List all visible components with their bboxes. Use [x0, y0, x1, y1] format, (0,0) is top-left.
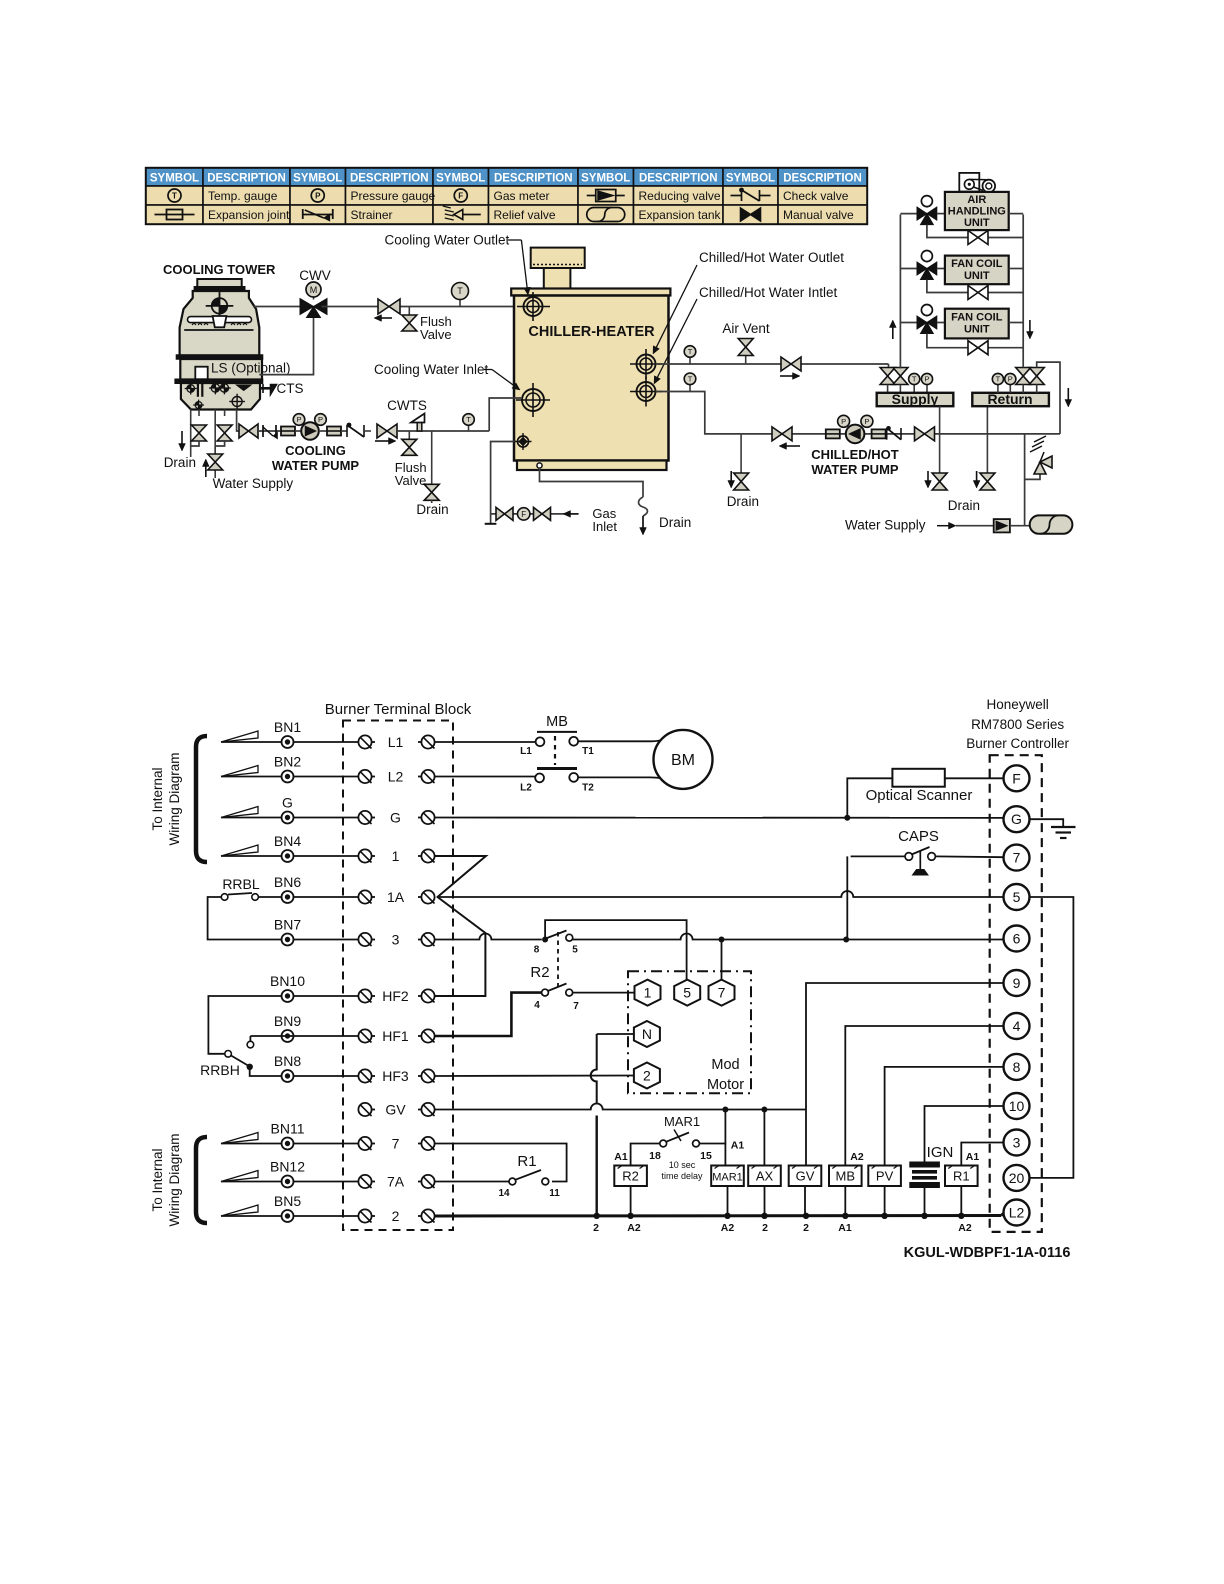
tower drain valve — [192, 425, 207, 433]
svg-text:To Internal: To Internal — [150, 767, 165, 830]
chiller drain vent — [537, 463, 542, 468]
manual valve chw pump suction — [772, 427, 782, 441]
svg-text:GV: GV — [385, 1102, 406, 1118]
svg-text:DESCRIPTION: DESCRIPTION — [350, 173, 429, 185]
svg-text:CWV: CWV — [299, 268, 331, 283]
svg-text:WATER PUMP: WATER PUMP — [811, 462, 898, 477]
svg-text:T: T — [466, 415, 471, 424]
temp gauge chilled outlet — [689, 357, 691, 364]
svg-text:P: P — [841, 417, 846, 426]
expansion joint pump right — [327, 427, 341, 436]
svg-text:SYMBOL: SYMBOL — [436, 173, 485, 185]
svg-text:9: 9 — [1013, 975, 1021, 991]
wire R2 contact to controller 6 — [573, 934, 1004, 940]
svg-text:BN9: BN9 — [274, 1013, 301, 1029]
svg-text:UNIT: UNIT — [964, 324, 990, 336]
cooling tower spray header — [188, 317, 252, 323]
svg-text:BN1: BN1 — [274, 719, 301, 735]
pipe supply riser to FCU2 valve — [900, 322, 917, 324]
pipe FCU2 to return riser — [1009, 322, 1024, 324]
flow arrow chilled outlet — [780, 375, 793, 377]
svg-text:P: P — [924, 375, 929, 384]
return isolation valve 2 — [1029, 368, 1044, 377]
terminal row GV (no BN) — [358, 1103, 371, 1116]
svg-text:Air Vent: Air Vent — [722, 321, 770, 336]
terminal row 7 (BN11) — [221, 1143, 259, 1145]
svg-text:A2: A2 — [958, 1222, 972, 1234]
manual valve on tower outlet line — [378, 299, 389, 314]
pipe tank riser — [1024, 434, 1026, 526]
svg-text:7: 7 — [718, 985, 726, 1001]
svg-text:T: T — [172, 192, 177, 201]
svg-text:L2: L2 — [388, 769, 404, 785]
svg-text:SYMBOL: SYMBOL — [726, 173, 775, 185]
burner terminal block dashed box — [343, 721, 453, 1231]
svg-text:F: F — [458, 192, 463, 201]
CWV motor actuator — [313, 297, 315, 300]
controller terminal L2 — [1004, 1200, 1030, 1226]
terminal row L2 (BN2) — [221, 776, 259, 778]
svg-text:MAR1: MAR1 — [664, 1114, 700, 1129]
legend check valve symbol — [731, 195, 742, 197]
gas pipe from port — [491, 442, 515, 524]
relief valve — [1034, 462, 1046, 474]
FCU1 bypass valve — [968, 286, 978, 300]
svg-text:4: 4 — [534, 1000, 540, 1011]
svg-text:Expansion tank: Expansion tank — [639, 208, 722, 222]
svg-text:10 sec: 10 sec — [669, 1160, 696, 1170]
wire controller 20 to 5 jumper — [1030, 897, 1074, 1178]
svg-text:Expansion joint: Expansion joint — [208, 208, 290, 222]
svg-text:AIR: AIR — [967, 194, 986, 206]
svg-text:10: 10 — [1009, 1098, 1025, 1114]
controller terminal G — [1004, 806, 1030, 832]
supply drain — [939, 406, 941, 473]
svg-text:Burner Controller: Burner Controller — [966, 736, 1069, 751]
controller terminal 3 — [1004, 1130, 1030, 1156]
AHU bypass valve — [968, 231, 978, 245]
FCU1 bypass pipe — [927, 280, 968, 293]
svg-text:7: 7 — [392, 1136, 400, 1152]
svg-text:LS (Optional): LS (Optional) — [211, 361, 291, 376]
terminal row 1 (BN4) — [221, 855, 259, 857]
brace (bottom group) — [196, 1137, 207, 1223]
return gauges — [997, 385, 999, 393]
cooling tower LS box — [195, 367, 207, 380]
svg-text:F: F — [1012, 770, 1021, 786]
svg-text:Drain: Drain — [416, 502, 448, 517]
chiller body — [514, 296, 669, 461]
pipe AHU valve to unit — [937, 213, 945, 215]
svg-text:Manual valve: Manual valve — [783, 208, 854, 222]
svg-text:Water Supply: Water Supply — [845, 518, 926, 533]
svg-text:RRBL: RRBL — [222, 876, 260, 892]
svg-text:COOLING: COOLING — [285, 443, 346, 458]
controller terminal 7 — [1004, 845, 1030, 871]
svg-text:A1: A1 — [966, 1151, 980, 1163]
chilled water outlet pipe — [656, 363, 889, 365]
wire 7A to R1 contact 14 — [435, 1181, 509, 1183]
svg-text:UNIT: UNIT — [964, 217, 990, 229]
chiller gas port — [518, 436, 529, 447]
svg-text:L1: L1 — [388, 734, 404, 750]
svg-text:WATER PUMP: WATER PUMP — [272, 458, 359, 473]
svg-text:GV: GV — [796, 1169, 815, 1184]
wire T1 to BM — [578, 737, 668, 741]
relay coil R1 — [945, 1166, 978, 1187]
flow arrow left on outlet line — [382, 317, 393, 319]
RRBH switch — [225, 1051, 232, 1058]
svg-text:SYMBOL: SYMBOL — [150, 173, 199, 185]
svg-text:7: 7 — [573, 1001, 579, 1012]
FCU2 three-way valve — [926, 307, 928, 317]
optical scanner box — [892, 769, 944, 787]
RRBL wire to BN7 — [208, 897, 282, 940]
strainer (pump suction) — [262, 425, 264, 437]
svg-text:5: 5 — [683, 985, 691, 1001]
svg-text:Inlet: Inlet — [592, 519, 617, 534]
controller terminal 9 — [1004, 970, 1030, 996]
fan coil unit 2 box — [945, 309, 1009, 339]
manual valve pump suction — [239, 424, 249, 438]
relay coil R2 — [614, 1166, 647, 1187]
svg-text:20: 20 — [1009, 1170, 1025, 1186]
temp gauge chilled inlet — [689, 385, 691, 392]
gas manual valve left — [496, 507, 505, 520]
svg-text:BN6: BN6 — [274, 874, 301, 890]
svg-text:Cooling Water Inlet: Cooling Water Inlet — [374, 362, 489, 377]
mod motor terminal 1 — [635, 980, 661, 1006]
ground symbol — [1030, 819, 1064, 827]
pipe supply riser to FCU1 valve — [900, 268, 917, 270]
svg-text:2: 2 — [392, 1208, 400, 1224]
wire controller 3 to R1 coil — [961, 1143, 1003, 1166]
wire L2 to MB — [435, 776, 535, 778]
brace (top group) — [196, 736, 207, 862]
pipe FCU1 to return riser — [1009, 268, 1024, 270]
svg-text:7A: 7A — [387, 1174, 405, 1190]
controller terminal 8 — [1004, 1054, 1030, 1080]
flow arrow right (pump line) — [375, 440, 389, 442]
svg-text:BN2: BN2 — [274, 754, 301, 770]
svg-text:N: N — [642, 1026, 652, 1042]
wire controller 4 to MB coil — [845, 1026, 1003, 1166]
RRBL switch — [221, 894, 228, 901]
manual valve pump discharge — [377, 424, 387, 438]
svg-text:Reducing valve: Reducing valve — [639, 189, 721, 203]
svg-text:R2: R2 — [622, 1169, 639, 1184]
CTS sensor — [260, 387, 271, 390]
gas meter — [518, 508, 530, 520]
pipe tower outlet to CWV — [253, 306, 302, 308]
legend manual valve symbol — [741, 208, 751, 221]
svg-text:BN11: BN11 — [271, 1121, 305, 1137]
CAPS wire vertical — [846, 856, 848, 938]
check valve (pump line) — [346, 425, 348, 437]
wire MAR1 15 to GV line — [699, 1110, 725, 1144]
pipe expansion to pump — [295, 430, 302, 432]
FCU2 bypass pipe — [927, 334, 968, 348]
pipe AHU to return riser — [1009, 213, 1024, 215]
svg-text:BN12: BN12 — [270, 1159, 305, 1175]
svg-text:UNIT: UNIT — [964, 270, 990, 282]
svg-text:T: T — [457, 286, 463, 296]
wire R2-8 to mod motor 5 — [545, 920, 687, 980]
svg-text:T: T — [912, 375, 917, 384]
svg-text:BN4: BN4 — [274, 833, 301, 849]
wire mod motor 7 to line 6 — [721, 940, 723, 980]
wire terminal 1 to 1A — [435, 856, 486, 897]
legend reducing valve symbol — [587, 195, 596, 197]
controller terminal 4 — [1004, 1013, 1030, 1039]
water supply pipe (tower) — [214, 410, 216, 455]
pressure gauge chw left — [843, 426, 845, 429]
legend table — [146, 168, 867, 224]
svg-text:DESCRIPTION: DESCRIPTION — [783, 173, 862, 185]
svg-text:CHILLED/HOT: CHILLED/HOT — [811, 447, 898, 462]
svg-text:Chilled/Hot Water Intlet: Chilled/Hot Water Intlet — [699, 285, 838, 300]
svg-text:6: 6 — [1013, 931, 1021, 947]
pipe supply riser to AHU valve — [900, 213, 917, 215]
svg-text:11: 11 — [549, 1188, 560, 1199]
R2 contact 8-5 — [542, 937, 548, 943]
tower water supply valve — [224, 410, 226, 417]
svg-text:3: 3 — [392, 932, 400, 948]
svg-text:Honeywell: Honeywell — [986, 697, 1048, 712]
svg-text:Return: Return — [987, 391, 1032, 407]
chilled hot water pump — [846, 425, 865, 444]
svg-text:Pressure gauge: Pressure gauge — [351, 189, 436, 203]
water supply arrow (tank) — [937, 525, 949, 527]
wire L1 to MB — [435, 741, 536, 743]
wire controller 8 to PV coil — [885, 1067, 1004, 1166]
pipe CWV to chiller — [322, 306, 525, 308]
return isolation valve 1 — [1016, 368, 1031, 377]
pipe chiller inlet down — [656, 392, 742, 434]
svg-text:HF1: HF1 — [382, 1028, 409, 1044]
FCU1 three-way valve — [926, 253, 928, 263]
relay coil GV — [789, 1166, 822, 1187]
svg-text:R2: R2 — [530, 964, 549, 981]
svg-text:T: T — [688, 375, 693, 384]
relay coil AX — [748, 1166, 781, 1187]
wire G to controller — [435, 817, 1004, 819]
pipe pump line right — [741, 433, 1060, 435]
svg-text:SYMBOL: SYMBOL — [581, 173, 630, 185]
pipe water supply to reducing valve — [956, 525, 994, 527]
svg-text:14: 14 — [498, 1188, 510, 1199]
bus junction dots — [594, 1213, 600, 1219]
supply isolation valve 2 — [899, 366, 901, 369]
fan coil unit 1 box — [945, 256, 1009, 285]
wire R2 coil to MAR1 18 — [631, 1144, 660, 1166]
svg-text:HF3: HF3 — [382, 1068, 409, 1084]
expansion joint pump left — [281, 427, 295, 436]
pipe to check valve — [341, 430, 347, 432]
svg-text:FAN COIL: FAN COIL — [951, 312, 1003, 324]
svg-text:7: 7 — [1013, 850, 1021, 866]
svg-text:BN5: BN5 — [274, 1193, 301, 1209]
mod motor terminal 5 — [674, 980, 700, 1006]
return riser — [1022, 215, 1024, 368]
down arrow return riser — [1029, 320, 1031, 332]
wire HF1 to R2 contact 4 — [435, 993, 542, 1036]
flush valve on outlet line — [408, 307, 410, 316]
svg-text:A1: A1 — [731, 1140, 745, 1152]
pipe FCU1 valve to unit — [937, 268, 945, 270]
svg-text:A2: A2 — [850, 1151, 864, 1163]
optical scanner wire — [847, 778, 892, 818]
relief valve branch — [1025, 474, 1040, 479]
gas manual valve right — [534, 507, 543, 520]
svg-text:Cooling Water Outlet: Cooling Water Outlet — [385, 233, 510, 248]
svg-text:AX: AX — [756, 1169, 774, 1184]
svg-text:4: 4 — [1013, 1018, 1021, 1034]
relay coil PV — [868, 1166, 901, 1187]
CWTS sensor — [417, 421, 422, 431]
svg-text:T: T — [996, 375, 1001, 384]
svg-text:Valve: Valve — [420, 327, 452, 342]
svg-text:Chilled/Hot Water Outlet: Chilled/Hot Water Outlet — [699, 250, 844, 265]
svg-text:BN8: BN8 — [274, 1053, 301, 1069]
expansion tank — [1030, 515, 1073, 533]
wire controller 10 to IGN — [925, 1106, 1004, 1162]
wire MAR1 coil top — [724, 1144, 726, 1166]
AHU fan — [959, 173, 979, 192]
svg-text:P: P — [1008, 375, 1013, 384]
svg-text:time delay: time delay — [661, 1171, 703, 1181]
svg-text:Valve: Valve — [395, 473, 427, 488]
controller terminal 5 — [1004, 884, 1030, 910]
svg-text:Drain: Drain — [727, 494, 759, 509]
pressure gauge chw right — [866, 426, 868, 429]
gas pipe horizontal — [491, 513, 565, 515]
svg-text:T: T — [688, 347, 693, 356]
air vent valve — [745, 356, 747, 364]
svg-text:BM: BM — [671, 752, 695, 769]
CAPS switch — [851, 855, 905, 857]
svg-text:Motor: Motor — [707, 1077, 744, 1093]
svg-text:Check valve: Check valve — [783, 189, 849, 203]
svg-text:2: 2 — [803, 1222, 809, 1234]
svg-text:HANDLING: HANDLING — [948, 206, 1006, 218]
svg-text:BN7: BN7 — [274, 917, 301, 933]
svg-text:FAN COIL: FAN COIL — [951, 258, 1003, 270]
pipe FCU2 valve to unit — [937, 322, 945, 324]
pump drain branch — [740, 434, 742, 473]
temp gauge (pump line) — [468, 425, 470, 431]
controller terminal 6 — [1004, 926, 1030, 952]
svg-text:5: 5 — [572, 945, 578, 956]
svg-text:L1: L1 — [520, 746, 532, 757]
svg-text:1: 1 — [644, 985, 652, 1001]
svg-text:Wiring Diagram: Wiring Diagram — [167, 1133, 182, 1226]
svg-text:SYMBOL: SYMBOL — [293, 173, 342, 185]
pipe pump discharge — [397, 430, 489, 432]
chiller top flange — [511, 289, 670, 296]
svg-text:A1: A1 — [838, 1222, 852, 1234]
legend pressure gauge symbol — [311, 189, 324, 202]
R2 linkage dashed — [557, 932, 559, 988]
svg-text:P: P — [318, 415, 323, 424]
svg-text:P: P — [296, 415, 301, 424]
svg-text:A2: A2 — [627, 1222, 641, 1234]
wire R2 contact 7 to mod motor 1 — [573, 992, 634, 994]
svg-text:G: G — [282, 795, 293, 811]
svg-text:Supply: Supply — [892, 391, 939, 407]
svg-text:T2: T2 — [582, 783, 594, 794]
svg-text:2: 2 — [762, 1222, 768, 1234]
svg-text:8: 8 — [1013, 1059, 1021, 1075]
wire controller 9 to GV line — [806, 983, 1004, 1110]
wire 7 to R1 contact 11 — [435, 1144, 567, 1182]
R1 switch — [509, 1178, 516, 1185]
svg-text:BN10: BN10 — [270, 973, 305, 989]
gas inlet arrow — [571, 513, 579, 515]
svg-text:Drain: Drain — [164, 455, 196, 470]
mod motor terminal 7 — [709, 980, 735, 1006]
legend expansion tank symbol — [587, 208, 625, 222]
manual valve chw discharge — [915, 427, 925, 441]
AHU bypass pipe — [927, 225, 968, 238]
svg-text:T1: T1 — [582, 746, 594, 757]
svg-text:A1: A1 — [614, 1151, 628, 1163]
RRBH wire from BN10 — [208, 996, 281, 1054]
return drain — [986, 406, 988, 473]
svg-text:L2: L2 — [1009, 1205, 1025, 1221]
chiller port chilled water outlet — [637, 355, 656, 374]
wire T2 to BM — [578, 777, 668, 781]
svg-text:CWTS: CWTS — [387, 398, 427, 413]
supply gauges — [913, 385, 915, 393]
supply box — [877, 393, 954, 406]
svg-text:Relief valve: Relief valve — [494, 208, 556, 222]
check valve chw — [886, 428, 888, 440]
temp gauge on outlet line — [459, 300, 461, 307]
svg-text:P: P — [315, 192, 321, 201]
CWV three-way valve — [300, 299, 314, 315]
svg-text:5: 5 — [1013, 889, 1021, 905]
svg-text:18: 18 — [649, 1150, 661, 1162]
wire GV row — [435, 1104, 806, 1110]
terminal row HF1 (BN9) — [294, 1035, 359, 1037]
svg-text:2: 2 — [593, 1222, 599, 1234]
svg-text:2: 2 — [643, 1068, 651, 1084]
terminal row G (G) — [221, 817, 259, 819]
down arrow right — [1067, 388, 1069, 400]
svg-text:1A: 1A — [387, 889, 405, 905]
svg-text:MB: MB — [836, 1169, 856, 1184]
pressure gauge pump left — [298, 424, 300, 427]
legend gas meter symbol — [454, 189, 467, 202]
svg-text:HF2: HF2 — [382, 988, 409, 1004]
svg-text:Drain: Drain — [948, 498, 980, 513]
svg-text:RRBH: RRBH — [200, 1062, 240, 1078]
cooling water pump — [301, 422, 319, 440]
air handling unit box — [945, 192, 1009, 230]
chiller port cooling water inlet — [522, 389, 544, 411]
svg-text:CTS: CTS — [277, 381, 304, 396]
svg-text:Gas meter: Gas meter — [494, 189, 550, 203]
svg-text:Optical Scanner: Optical Scanner — [866, 787, 973, 804]
tower drain pipe — [190, 410, 192, 458]
wire HF3 to mod motor 2 — [435, 1075, 634, 1078]
legend strainer symbol — [303, 214, 333, 216]
pump suction pipe — [237, 410, 240, 432]
legend temp gauge symbol — [168, 189, 181, 202]
svg-text:IGN: IGN — [927, 1144, 954, 1161]
terminal row L1 (BN1) — [221, 741, 259, 743]
